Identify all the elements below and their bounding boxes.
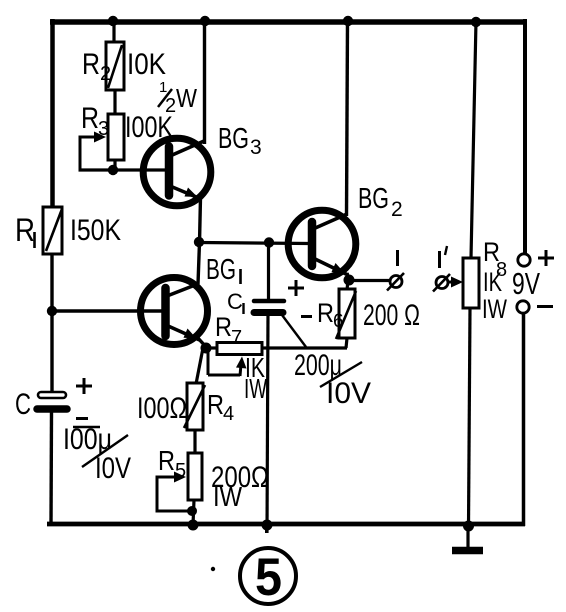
label C value slash <box>82 435 128 467</box>
svg-text:5: 5 <box>255 548 282 607</box>
potentiometer R5 <box>188 453 202 500</box>
label C1 value slash <box>320 362 362 387</box>
svg-text:IW: IW <box>482 294 507 324</box>
label BG2 <box>358 183 403 221</box>
ground <box>452 526 483 551</box>
label R8 <box>483 237 507 281</box>
node junction BG2 emitter / R6 / output <box>344 275 355 286</box>
label R8 value 1K <box>483 267 502 297</box>
label battery 9V <box>512 266 540 301</box>
svg-text:BG: BG <box>218 123 249 155</box>
svg-text:IW: IW <box>244 373 267 404</box>
label C <box>15 388 31 421</box>
wire R7 wiper hook <box>208 348 247 376</box>
label BG3 <box>218 123 262 159</box>
label C minus <box>76 417 88 420</box>
label C1 value 200u <box>294 349 342 382</box>
label R6 <box>317 298 344 332</box>
wire R2 top lead <box>112 21 115 43</box>
svg-text:9V: 9V <box>512 266 540 301</box>
label C1 plus <box>288 280 304 296</box>
wire R7 left lead <box>205 346 218 349</box>
label R2 <box>82 48 111 85</box>
wire R6 bottom lead <box>346 338 347 348</box>
wire BG1 collector lead <box>198 242 200 284</box>
wire R3 wiper hook <box>80 132 106 172</box>
resistor R1 <box>43 207 62 254</box>
svg-text:3: 3 <box>250 136 262 159</box>
transistor BG1 <box>141 278 208 345</box>
node junction C1 top tap <box>264 237 274 247</box>
svg-text:R: R <box>317 298 334 328</box>
wire R8 top lead <box>471 21 476 258</box>
label R5 rating 1W <box>213 481 242 512</box>
resistor R6 <box>336 289 356 339</box>
wire R4 top lead <box>196 348 203 384</box>
svg-text:R: R <box>81 102 99 135</box>
node junction R5 hook / bottom lead <box>187 506 197 516</box>
wire R2-R3 link <box>113 90 116 115</box>
capacitor C1 <box>254 301 284 313</box>
transistor BG2 <box>288 210 356 278</box>
node junction top rail at BG3 collector <box>200 16 210 26</box>
wire R5 wiper hook <box>156 472 194 512</box>
wire R3 bottom lead <box>113 160 116 170</box>
svg-text:IK: IK <box>483 267 502 297</box>
svg-text:C: C <box>227 289 243 314</box>
label R1 <box>15 212 35 248</box>
wire right rail upper (top rail to + terminal) <box>523 19 527 253</box>
label R4 <box>207 389 234 425</box>
label R5 value 200 Ohm <box>211 461 269 494</box>
label R1 value 150K <box>70 214 121 247</box>
wire BG2 collector lead <box>347 21 348 216</box>
svg-text:200 Ω: 200 Ω <box>363 299 420 332</box>
stray dot mark <box>211 567 215 571</box>
label C1 minus <box>301 315 312 318</box>
node junction top rail at R8 <box>471 17 481 27</box>
wire node to BG2 base <box>199 243 309 244</box>
svg-text:R: R <box>82 48 100 81</box>
node junction R3 bottom / BG3 base <box>108 165 118 175</box>
svg-text:R: R <box>15 212 35 248</box>
svg-text:I0V: I0V <box>326 377 371 410</box>
wire R8 bottom lead <box>469 308 471 526</box>
label I' <box>440 246 448 268</box>
wire R6 bottom to R7 right <box>261 346 347 349</box>
label R6 value 200 Ohm <box>363 299 420 332</box>
svg-text:BG: BG <box>206 254 236 286</box>
potentiometer R3 <box>108 114 124 160</box>
label C1 value 10V <box>326 377 371 410</box>
label R2 rating 1/2W <box>158 79 197 117</box>
potentiometer R7 <box>217 343 262 355</box>
svg-text:R: R <box>207 389 224 420</box>
wire BG1 emitter lead <box>197 337 207 348</box>
wire BG1 base <box>52 309 163 312</box>
node wiper terminal I' (circle with slash) <box>433 274 450 292</box>
wire output I tap <box>349 279 389 282</box>
wire R4-R5 link <box>193 430 196 453</box>
svg-text:6: 6 <box>333 311 344 332</box>
wire BG3 base <box>79 168 167 171</box>
capacitor C <box>37 392 67 409</box>
label R8 rating 1W <box>482 294 507 324</box>
svg-text:R: R <box>158 445 175 476</box>
wire bottom rail <box>47 522 525 527</box>
resistor R2 <box>106 42 124 90</box>
svg-text:IW: IW <box>213 481 242 512</box>
node battery terminal minus <box>517 301 529 313</box>
label battery minus <box>537 305 553 308</box>
wire left rail lower segment (C to bottom rail) <box>49 412 53 525</box>
wire BG3 collector lead <box>203 21 206 144</box>
svg-text:I50K: I50K <box>70 214 121 247</box>
label I <box>396 250 399 266</box>
potentiometer R8 <box>463 258 479 308</box>
wire R6 top lead <box>347 280 348 290</box>
svg-text:1: 1 <box>159 79 167 96</box>
svg-text:I0K: I0K <box>127 48 166 81</box>
svg-text:BG: BG <box>358 183 389 215</box>
node junction bottom rail R5 <box>188 520 199 531</box>
wire left rail upper segment <box>50 19 55 207</box>
label C1 <box>227 289 244 314</box>
label R7 value 1K <box>245 352 265 383</box>
node junction left rail BG1 base <box>47 306 57 316</box>
wire R5 bottom lead <box>193 500 194 525</box>
label C value 100u <box>63 423 112 456</box>
label R7 <box>215 312 242 349</box>
label R4 value 100 Ohm <box>137 392 187 425</box>
wire C1 bottom to ground rail <box>267 312 268 533</box>
svg-text:I0V: I0V <box>95 452 131 485</box>
label R5 <box>158 445 186 482</box>
node junction bottom rail R8 <box>463 521 474 532</box>
figure number circled 5 <box>240 548 296 607</box>
svg-text:C: C <box>15 388 31 421</box>
label R3 value 100K <box>125 111 173 144</box>
label R2 value 10K <box>127 48 166 81</box>
svg-text:4: 4 <box>223 403 234 425</box>
label R3 <box>81 102 109 140</box>
node junction top rail at R2 <box>108 16 118 26</box>
label BG1 <box>206 254 241 286</box>
resistor R4 <box>184 383 205 430</box>
node junction bottom rail C1 branch <box>262 520 273 531</box>
wire BG3 emitter lead <box>200 197 201 243</box>
wire top rail <box>50 19 527 25</box>
svg-text:I00Ω: I00Ω <box>137 392 187 425</box>
node junction BG1 emitter / R7 / R4 <box>201 343 212 354</box>
node junction top rail at BG2 collector <box>343 16 353 26</box>
svg-text:R: R <box>215 312 232 342</box>
label C plus <box>76 378 92 394</box>
label R7 rating 1W <box>244 373 267 404</box>
label C1 leader line <box>282 315 306 347</box>
wire right rail lower (- terminal to bottom rail) <box>522 314 526 526</box>
wire C1 ground stub below rail <box>265 527 268 533</box>
wire left rail middle segment (R1 to C) <box>50 254 53 393</box>
svg-text:7: 7 <box>231 327 242 349</box>
svg-text:2: 2 <box>100 63 111 85</box>
svg-text:2: 2 <box>391 198 403 221</box>
node junction BG3 emitter / BG1 collector <box>194 237 204 247</box>
wire R8 wiper arrow <box>448 277 463 288</box>
label C value 10V <box>95 452 131 485</box>
svg-text:W: W <box>176 83 197 113</box>
wire C1 top lead <box>267 242 270 300</box>
node output terminal I (circle with slash) <box>387 273 404 291</box>
transistor BG3 <box>143 138 211 206</box>
node battery terminal plus <box>518 254 530 266</box>
wire BG2 emitter lead <box>347 273 349 280</box>
label battery plus <box>538 250 554 266</box>
